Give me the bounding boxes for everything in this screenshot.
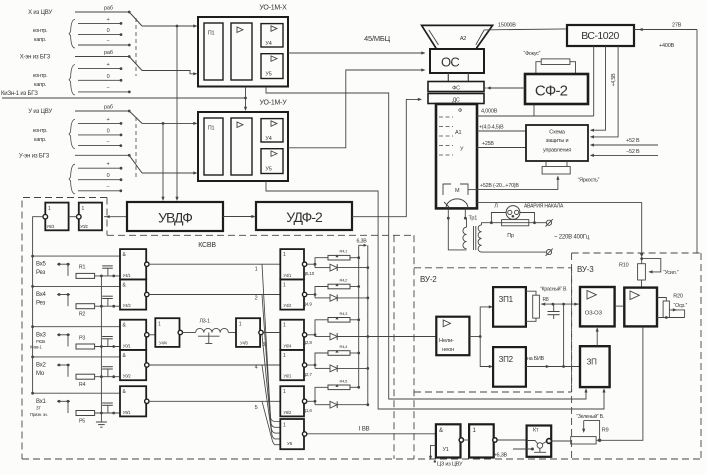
svg-text:контр.: контр. <box>33 128 48 134</box>
svg-text:Вх1: Вх1 <box>36 399 47 405</box>
svg-text:Р5: Р5 <box>79 418 85 424</box>
svg-text:УО-1М-У: УО-1М-У <box>259 100 287 107</box>
svg-text:R4,2: R4,2 <box>340 278 349 283</box>
svg-text:У4/1: У4/1 <box>123 273 132 278</box>
AND gate У0/2 <box>120 350 146 380</box>
block UVDF <box>127 202 223 231</box>
transformer Tr1 core <box>473 226 475 250</box>
wire resistor to gate input <box>95 376 120 378</box>
svg-text:R4,3: R4,3 <box>340 311 349 316</box>
wire 27V down right edge <box>696 30 698 254</box>
svg-text:ВУ-3: ВУ-3 <box>577 265 594 274</box>
diode Д2,7 <box>314 365 316 368</box>
svg-text:РКЗв: РКЗв <box>36 339 46 344</box>
AND gate У9/1 <box>120 386 146 416</box>
svg-text:“Яркость”: “Яркость” <box>578 178 600 184</box>
svg-text:1: 1 <box>283 323 286 329</box>
inverter U4/4 <box>149 334 155 336</box>
resistor R1 <box>76 273 95 278</box>
svg-text:Кт: Кт <box>533 428 539 434</box>
svg-text:“Фокус”: “Фокус” <box>524 51 541 57</box>
mechanical link Y switches (dashed) <box>135 117 137 178</box>
OR gate У4/2 <box>280 279 304 309</box>
sub-block P1 of UO-1M-X <box>204 23 223 80</box>
svg-text:+: + <box>106 117 109 123</box>
wire Kt to R9 <box>551 440 570 442</box>
svg-text:“Оср.”: “Оср.” <box>674 303 688 309</box>
svg-text:У4/4: У4/4 <box>159 341 168 346</box>
svg-text:Д2,8: Д2,8 <box>303 340 312 345</box>
wire nonlinear element output to ZP1 and ZP2 <box>469 336 480 338</box>
svg-text:−: − <box>106 85 109 91</box>
wire resistor to gate input <box>95 275 120 277</box>
amplifier U5 of UO-1M-X <box>261 54 283 79</box>
svg-text:Рез: Рез <box>36 301 46 307</box>
wire Y tap down to UVDF input 2 <box>162 122 165 125</box>
svg-text:У-эн из БГЗ: У-эн из БГЗ <box>19 153 50 159</box>
wire primary top to lamp-fuse circuit <box>482 223 492 225</box>
wire row 2 to output gate <box>149 294 280 296</box>
wire Y-zn common to UO-1M-U input 2 <box>142 172 196 174</box>
svg-text:−52 В: −52 В <box>626 149 640 155</box>
wire SF-2 to FS electrode <box>488 87 525 89</box>
diode Д5,10 <box>314 264 316 267</box>
svg-text:раб: раб <box>104 6 113 12</box>
svg-text:R8: R8 <box>543 297 549 303</box>
wire row 1 to output gate <box>149 263 280 265</box>
svg-text:Д1,6: Д1,6 <box>303 408 312 413</box>
wire inverter U0/2 to U6/3 <box>69 216 77 218</box>
svg-text:R4,4: R4,4 <box>340 344 349 349</box>
cathode of CRT <box>446 199 468 209</box>
inverter U6/3 <box>45 203 68 231</box>
svg-text:+4,5В: +4,5В <box>611 73 617 87</box>
svg-text:6,3В: 6,3В <box>357 239 368 245</box>
CRT neck lines <box>447 73 449 82</box>
svg-text:R4,1: R4,1 <box>340 249 349 254</box>
svg-text:ЗП2: ЗП2 <box>499 355 514 364</box>
svg-text:А1: А1 <box>455 130 461 136</box>
svg-text:капр.: капр. <box>34 37 47 43</box>
wire U4/4 to filter L3-1 <box>183 332 196 334</box>
svg-text:Вх5: Вх5 <box>36 262 47 268</box>
wire modulator to brightness pot <box>468 189 477 191</box>
wire gate bus to input 2 top input <box>31 356 34 359</box>
wire input Vx1 <box>57 400 70 402</box>
electrode FS <box>428 82 484 92</box>
svg-text:Ф: Ф <box>458 108 462 114</box>
inverter U4/3 <box>236 318 260 347</box>
capacitor row 1 <box>107 405 109 413</box>
wire KiZn-1 horizontal to UO-1M-U top <box>2 97 246 99</box>
svg-text:1: 1 <box>82 206 85 212</box>
wire primary bottom to 220V terminal 2 <box>482 251 547 253</box>
svg-text:Вх4: Вх4 <box>36 292 47 298</box>
ground rail of input dividers <box>100 276 102 422</box>
wire UDF-2 output up to DS electrode <box>352 99 421 216</box>
svg-text:П1: П1 <box>208 126 215 132</box>
switch blade X из ЦВУ <box>129 12 142 26</box>
svg-text:У4/2: У4/2 <box>123 303 132 308</box>
block UDF-2 <box>256 202 352 230</box>
wire U4/3 to gate U6/4 <box>263 332 280 334</box>
svg-text:15000В: 15000В <box>498 23 516 29</box>
dashed bottom boundary <box>22 458 701 460</box>
wire gate У4/1 output <box>307 263 315 265</box>
svg-text:&: & <box>439 428 443 434</box>
svg-text:1: 1 <box>283 389 286 395</box>
svg-text:У4: У4 <box>265 136 271 142</box>
wire link R8 line to ZP2 line <box>563 304 565 366</box>
AND gate У0/1 <box>120 320 146 350</box>
wire Y common to UO-1M-U input 1 <box>142 122 196 124</box>
heater pins <box>447 208 449 218</box>
svg-text:раб: раб <box>104 105 113 111</box>
switch blade У из ЦВУ <box>129 111 142 123</box>
wire UVDF to UDF-2 <box>223 216 254 218</box>
svg-text:У0/2: У0/2 <box>80 224 89 229</box>
svg-text:2: 2 <box>255 296 258 302</box>
wire cathode tap to R10 <box>477 201 642 203</box>
capacitor row 2 <box>107 369 109 377</box>
block ZP1 <box>493 287 526 327</box>
output amplifier of VU-3 <box>624 288 657 327</box>
wire -52V into protection circuit <box>591 154 658 156</box>
svg-text:ЗТ: ЗТ <box>36 405 41 410</box>
svg-text:У из ЦВУ: У из ЦВУ <box>28 109 52 115</box>
resistor R2 <box>76 304 95 309</box>
svg-text:Х-эн из БГЗ: Х-эн из БГЗ <box>20 55 51 61</box>
wire gate У6/1 output <box>307 364 315 366</box>
pull-up resistor R4,4 <box>315 353 328 365</box>
transformer Tr1 primary winding <box>478 225 481 232</box>
transformer Tr1 secondary winding <box>465 218 466 227</box>
diode Д4,9 <box>314 295 316 298</box>
svg-text:У4: У4 <box>265 41 271 47</box>
svg-text:−: − <box>106 39 109 45</box>
wire ZP2 output to ZP (na BIV) <box>526 366 580 368</box>
terminal 220V top <box>546 220 551 225</box>
svg-text:ДС: ДС <box>452 98 460 104</box>
svg-text:R4,5: R4,5 <box>340 378 349 383</box>
svg-text:УДФ-2: УДФ-2 <box>286 209 323 225</box>
svg-text:У5: У5 <box>287 441 293 446</box>
svg-text:45/МБЦ: 45/МБЦ <box>364 34 391 43</box>
svg-text:0: 0 <box>107 128 110 134</box>
svg-text:Вх3: Вх3 <box>36 332 47 338</box>
wire gate bus to input 3 top input <box>31 325 34 328</box>
svg-text:1: 1 <box>283 423 286 429</box>
wire U1 to gate 1 <box>464 439 470 441</box>
wire fuse to 220V terminal 1 <box>535 222 547 224</box>
svg-text:Рез: Рез <box>36 270 46 276</box>
svg-text:+: + <box>106 17 109 23</box>
wire 45/MBC output of UO-1M-X to OS <box>288 52 424 54</box>
inverter U0/2 <box>79 203 102 231</box>
wire OZ-OZ to output amplifier <box>615 305 625 307</box>
wire UO-1M-X U5 output down to ZP <box>266 87 586 400</box>
wire resistor to gate input <box>95 305 120 307</box>
svg-text:+52В (-20...+70)В: +52В (-20...+70)В <box>480 183 519 189</box>
svg-text:R4: R4 <box>79 382 86 388</box>
wire X-zn common to UO-1M-X input 2 <box>142 71 196 74</box>
AND gate У4/2 <box>120 279 146 309</box>
svg-text:ЦЗ из ЦВУ: ЦЗ из ЦВУ <box>437 462 463 468</box>
OR gate У6/1 <box>280 350 304 380</box>
svg-text:R2: R2 <box>79 312 86 318</box>
svg-text:R10: R10 <box>619 263 629 269</box>
svg-text:ОС: ОС <box>441 55 459 70</box>
svg-text:0: 0 <box>107 28 110 34</box>
block protection and control circuit <box>526 125 588 161</box>
svg-text:Нели-: Нели- <box>439 338 454 344</box>
svg-text:3: 3 <box>262 342 265 348</box>
svg-text:КиЗн-1 из БГЗ: КиЗн-1 из БГЗ <box>1 91 38 97</box>
sub-block P1 of UO-1M-U <box>204 118 223 175</box>
svg-text:СФ-2: СФ-2 <box>535 83 568 100</box>
svg-text:УВДФ: УВДФ <box>158 210 192 226</box>
wire UO-1M-U U4 output to OS input 2 <box>288 70 424 148</box>
svg-text:+: + <box>106 62 109 68</box>
amplifier U5 of UO-1M-U <box>261 149 283 174</box>
node X из ЦВУ input group wires <box>75 11 129 13</box>
svg-text:У6/2: У6/2 <box>283 410 292 415</box>
svg-text:−: − <box>106 139 109 145</box>
svg-text:1: 1 <box>283 282 286 288</box>
AND gate У4/1 <box>120 249 146 279</box>
diode Д1,6 <box>314 401 316 404</box>
brace У из ЦВУ <box>69 119 75 148</box>
svg-text:М: М <box>455 188 460 194</box>
svg-text:У5: У5 <box>265 72 271 78</box>
block ZP2 <box>493 347 526 387</box>
nonlinear element block <box>436 317 469 356</box>
CRT tube body <box>436 104 477 208</box>
modulator M <box>443 184 451 195</box>
amplifier stage UO-1M-U <box>231 118 252 175</box>
svg-text:1: 1 <box>283 353 286 359</box>
wire gate У6/2 output <box>307 400 315 402</box>
wire resistor to gate input <box>95 346 120 348</box>
brace X из ЦВУ <box>69 19 75 48</box>
svg-text:Мо: Мо <box>36 371 45 377</box>
svg-text:1: 1 <box>283 252 286 258</box>
gate U5 output register <box>280 419 304 449</box>
electrode dashes inside tube <box>439 116 453 118</box>
wire UO-1M-U U5 output down to ZP <box>266 181 604 409</box>
svg-text:Тр1: Тр1 <box>469 216 478 222</box>
svg-text:Д2,7: Д2,7 <box>303 372 312 377</box>
gate 1 after U1 <box>469 424 494 457</box>
svg-text:КСВВ: КСВВ <box>198 242 216 249</box>
node Х-эн из БГЗ input group wires <box>75 56 129 58</box>
svg-text:Л3-1: Л3-1 <box>200 319 211 325</box>
block VS-1020 <box>567 25 634 46</box>
svg-text:X из ЦВУ: X из ЦВУ <box>28 10 52 16</box>
cable bundle lines 1-5 into U6 <box>262 264 280 421</box>
OR gate У6/4 <box>280 320 304 350</box>
svg-text:Пр: Пр <box>507 233 514 239</box>
block ZP of VU-3 <box>580 346 610 387</box>
capacitor row 3 <box>107 339 109 347</box>
wire R8 wiper to OZ-OZ <box>541 303 580 305</box>
svg-text:Р3: Р3 <box>79 335 85 341</box>
wire X common to UO-1M-X input 1 <box>142 25 196 27</box>
svg-text:защиты и: защиты и <box>546 138 569 144</box>
block OZ-OZ <box>580 287 615 326</box>
svg-text:+400В: +400В <box>659 43 675 49</box>
svg-text:Кизв-1: Кизв-1 <box>30 344 42 349</box>
svg-text:R9: R9 <box>602 428 609 434</box>
svg-text:П1: П1 <box>208 31 215 37</box>
svg-text:R1: R1 <box>79 265 86 271</box>
amplifier U4 of UO-1M-X <box>261 24 283 47</box>
capacitor row 4 <box>107 299 109 307</box>
svg-text:Призн. зн.: Призн. зн. <box>30 412 48 417</box>
svg-text:управления: управления <box>543 148 571 154</box>
wire 15000V funnel to VS-1020 <box>484 29 567 30</box>
svg-text:У4/1: У4/1 <box>283 273 292 278</box>
wire +52V into protection circuit <box>591 144 658 146</box>
svg-text:ФС: ФС <box>452 86 460 92</box>
svg-text:У0/1: У0/1 <box>123 343 132 348</box>
wire input Vx5 <box>57 263 70 265</box>
wire diode row 3 to nonlinear element <box>368 336 437 338</box>
wire VS-1020 +4.5V to protection circuit 2 <box>591 46 618 137</box>
svg-text:R20: R20 <box>673 294 683 300</box>
svg-text:I ВВ: I ВВ <box>359 427 370 433</box>
OR gate У4/1 <box>280 249 304 279</box>
wire input Vx2 <box>57 364 70 366</box>
svg-text:~ 220В 400Гц: ~ 220В 400Гц <box>554 235 590 241</box>
CRT screen funnel A2 <box>422 25 493 48</box>
wire 27V into VS-1020 <box>634 29 697 31</box>
svg-text:на БИВ: на БИВ <box>527 356 545 362</box>
svg-text:УО-1М-Х: УО-1М-Х <box>259 5 287 12</box>
wire row 4 to output gate <box>149 364 280 366</box>
wire R9 to amplifier output line <box>596 439 600 441</box>
switch blade Х-эн из БГЗ <box>129 57 142 71</box>
capacitor at R8 output <box>553 304 555 311</box>
svg-text:0: 0 <box>107 74 110 80</box>
pull-up resistor R4,1 <box>315 258 328 265</box>
svg-text:ВУ-2: ВУ-2 <box>420 275 437 284</box>
wire ZP to OZ-OZ <box>596 328 598 346</box>
svg-text:А2: А2 <box>460 36 466 42</box>
svg-text:+: + <box>106 162 109 168</box>
wire gate 1 to Kt <box>497 439 526 441</box>
block SF-2 <box>525 74 588 104</box>
wire VS-1020 to SF-2 supply <box>593 46 595 116</box>
pull-up resistor R4,5 <box>315 387 328 401</box>
pull-up resistor R4,3 <box>315 320 328 335</box>
wire resistor to gate input <box>95 412 120 414</box>
svg-text:4,000В: 4,000В <box>481 109 498 115</box>
svg-text:1: 1 <box>158 322 161 328</box>
wire X tap down to UVDF input 1 <box>176 25 179 28</box>
deflection system OS <box>430 49 484 73</box>
wire gate bus to input 4 top input <box>31 285 34 288</box>
svg-text:капр.: капр. <box>34 137 47 143</box>
svg-text:+(4,0-4,5)В: +(4,0-4,5)В <box>479 125 504 131</box>
svg-text:капр.: капр. <box>34 82 47 88</box>
wire output amplifier down to R9 line <box>600 326 643 440</box>
svg-text:контр.: контр. <box>33 73 48 79</box>
svg-text:ОЗ-ОЗ: ОЗ-ОЗ <box>585 311 603 317</box>
svg-text:У1: У1 <box>443 447 449 453</box>
pull-up resistor R4,2 <box>315 287 328 295</box>
wire row 5 to output gate <box>149 400 280 402</box>
svg-text:“Усил.”: “Усил.” <box>663 270 679 276</box>
wire VS-1020 to protection circuit 1 <box>591 46 606 130</box>
wire UO-1M-X bottom to UO-1M-U top <box>245 87 247 111</box>
svg-text:1: 1 <box>239 322 242 328</box>
wire gate У4/2 output <box>307 294 315 296</box>
wire input Vx4 <box>57 294 70 296</box>
wire I VV from U6 to U1 <box>307 433 436 435</box>
svg-text:неон: неон <box>442 347 454 353</box>
electrode DS <box>428 94 484 104</box>
svg-text:1: 1 <box>48 206 51 212</box>
wire gate bus to input 5 top input <box>31 255 34 258</box>
svg-text:контр.: контр. <box>33 28 48 34</box>
svg-text:ЗП: ЗП <box>587 358 598 367</box>
amplifier stage UO-1M-X <box>231 23 252 80</box>
wire input Vx3 <box>57 334 70 336</box>
svg-text:АВАРИЯ НАКАЛА: АВАРИЯ НАКАЛА <box>524 204 564 210</box>
capacitor row 5 <box>107 268 109 276</box>
mechanical link X switches (dashed) <box>135 18 137 76</box>
svg-text:У6/4: У6/4 <box>283 343 292 348</box>
svg-text:У9/1: У9/1 <box>123 410 132 415</box>
svg-text:У5: У5 <box>265 167 271 173</box>
svg-text:У0/2: У0/2 <box>123 374 132 379</box>
svg-text:27В: 27В <box>672 23 682 29</box>
dashed boundary left unit (KSVV) <box>22 198 107 460</box>
svg-text:Схема: Схема <box>549 130 566 136</box>
wire gate У6/4 output <box>307 334 315 336</box>
resistor Р3 <box>76 344 95 349</box>
svg-text:5: 5 <box>255 405 258 411</box>
svg-text:раб: раб <box>104 50 113 56</box>
wire gate bus to input 1 top input <box>31 392 34 395</box>
ground symbol <box>96 421 107 423</box>
node У-эн из БГЗ input group wires <box>75 154 129 156</box>
svg-text:−: − <box>106 184 109 190</box>
svg-text:ЗП1: ЗП1 <box>499 295 514 304</box>
svg-text:Д4,9: Д4,9 <box>303 301 312 306</box>
svg-text:+6,3В: +6,3В <box>494 453 508 459</box>
AND gate U1 <box>436 424 461 457</box>
svg-text:У6/1: У6/1 <box>283 374 292 379</box>
resistor R4 <box>76 374 95 379</box>
wire cathode line down to R10 <box>641 202 643 263</box>
terminal 220V bottom <box>546 250 551 255</box>
svg-text:У4/3: У4/3 <box>240 341 249 346</box>
svg-text:Вх2: Вх2 <box>36 363 47 369</box>
potentiometer Brightness <box>545 161 547 167</box>
svg-text:1: 1 <box>255 266 258 272</box>
wire R10 to amplifier <box>641 280 643 288</box>
resistor Р5 <box>76 411 95 416</box>
svg-text:“Красный” В.: “Красный” В. <box>540 286 567 293</box>
svg-text:4: 4 <box>255 365 258 371</box>
svg-text:Д5,10: Д5,10 <box>303 271 315 276</box>
svg-text:0: 0 <box>107 173 110 179</box>
svg-text:Л: Л <box>494 204 498 210</box>
switch blade У-эн из БГЗ <box>129 155 142 173</box>
brace У-эн из БГЗ <box>69 164 75 194</box>
